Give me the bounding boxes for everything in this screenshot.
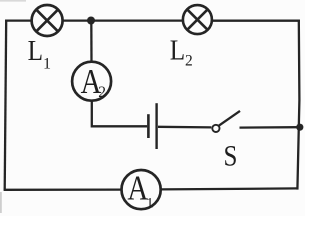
- wire: right vertical: [297, 20, 299, 190]
- svg-text:L: L: [28, 35, 43, 67]
- svg-text:1: 1: [43, 55, 51, 72]
- svg-text:1: 1: [146, 195, 153, 211]
- wire: top-right segment: [213, 20, 300, 22]
- scan streak left edge bottom: [0, 192, 2, 213]
- svg-text:L: L: [170, 35, 185, 67]
- node junction dot right: [296, 124, 303, 131]
- battery B: short plate (negative): [147, 114, 150, 138]
- battery B: long plate (positive): [155, 103, 157, 149]
- wire: battery to switch: [158, 126, 211, 129]
- svg-text:S: S: [224, 140, 238, 173]
- switch S lever: [219, 111, 240, 126]
- wire: switch to right junction: [240, 126, 300, 129]
- node junction dot top: [87, 17, 95, 25]
- lamp L1: [32, 5, 63, 36]
- lamp L2: [183, 5, 212, 34]
- wire: A2 bottom to battery branch: [92, 102, 147, 127]
- ammeter A2: [72, 62, 111, 101]
- wire: left vertical: [5, 20, 7, 191]
- wire: top-left segment: [5, 19, 31, 21]
- svg-text:2: 2: [98, 84, 106, 101]
- wire: bottom-left segment: [4, 188, 122, 190]
- svg-text:2: 2: [185, 53, 193, 70]
- switch S pivot: [212, 125, 219, 132]
- wire: top middle segment: [64, 19, 183, 21]
- ammeter A1: [122, 170, 161, 209]
- scan smudge top-left: [0, 0, 26, 2]
- wire: junction down to ammeter A2: [90, 21, 92, 61]
- wire: bottom-right segment: [161, 188, 299, 189]
